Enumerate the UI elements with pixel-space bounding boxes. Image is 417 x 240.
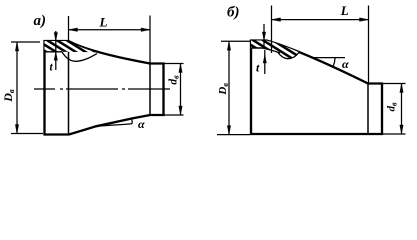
reducer outline (fig b) xyxy=(251,41,382,135)
dimension d (fig a) xyxy=(164,64,184,116)
angle arc (fig a) xyxy=(131,119,134,124)
svg-text:б): б) xyxy=(227,5,239,21)
weld junction line right (fig a) xyxy=(149,64,151,116)
broken-out wall section, hatched (fig a) xyxy=(45,41,97,52)
reducer outline (fig a) xyxy=(45,41,164,135)
inner wall line (fig b) xyxy=(251,48,280,53)
dimension t (fig b) xyxy=(262,24,266,74)
angle reference ray (fig b) xyxy=(312,57,345,59)
angle reference ray (fig a) xyxy=(96,124,132,127)
break line curve (fig a) xyxy=(62,52,97,62)
svg-text:α: α xyxy=(342,57,349,71)
dimension d (fig b) xyxy=(382,84,406,135)
weld junction line left (fig a) xyxy=(68,41,70,135)
dimension L (fig b) xyxy=(272,6,369,84)
inner wall line (fig a) xyxy=(45,51,63,53)
weld junction line (fig b) xyxy=(367,84,369,135)
dimension t (fig a) xyxy=(54,31,57,70)
svg-text:α: α xyxy=(138,117,145,131)
dimension L (fig a) xyxy=(69,16,151,64)
dimension D (fig b) xyxy=(217,41,250,134)
svg-text:L: L xyxy=(99,14,108,29)
broken-out wall section, hatched (fig b) xyxy=(251,41,299,59)
angle arc (fig b) xyxy=(333,58,335,67)
svg-text:а): а) xyxy=(34,13,47,29)
dimension D (fig a) xyxy=(11,42,43,134)
svg-text:L: L xyxy=(340,3,349,18)
break line curve (fig b) xyxy=(278,52,299,58)
centerline (fig a) xyxy=(34,88,170,90)
